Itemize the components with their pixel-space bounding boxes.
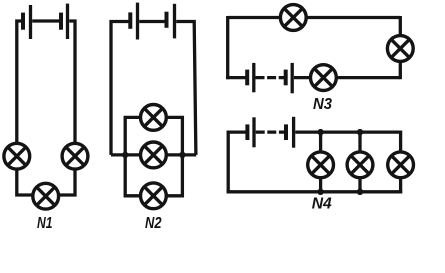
wire GB3 inter-cell dashed link: [256, 76, 285, 79]
battery GB2 cell1 long plate: [136, 3, 139, 40]
wire N3 bottom right segment: [294, 76, 400, 79]
lamp L2: [62, 143, 88, 169]
wire N4 lamp branch 1: [319, 132, 322, 192]
wire N3 top side: [228, 16, 401, 19]
battery GB3 cell1 short plate: [245, 70, 249, 86]
wire N1 lamp L1 to lamp L3: [17, 168, 34, 195]
wire N2 battery left lead: [111, 22, 130, 155]
battery GB3 cell2 short plate: [284, 70, 288, 86]
wire N2 top branch: [125, 117, 182, 154]
svg-text:N2: N2: [145, 215, 162, 232]
battery GB3 cell2 long plate: [291, 63, 294, 93]
lamp L6 (N2 bottom): [141, 183, 167, 209]
battery GB4 cell2 long plate: [292, 117, 295, 148]
battery GB4 cell1 short plate: [245, 124, 249, 140]
battery GB4 cell2 short plate: [284, 124, 288, 140]
battery GB2 cell2 short plate: [165, 12, 169, 28]
lamp L3: [33, 183, 59, 209]
junction dot N2 left: [122, 152, 128, 158]
wire N1 battery negative lead (left): [17, 21, 23, 144]
lamp L1: [4, 143, 30, 169]
lamp L9 (N3 bottom): [311, 65, 337, 91]
lamp L4 (N2 top): [141, 105, 167, 131]
wire N2 battery right lead: [176, 22, 196, 155]
lamp L7 (N3 top): [280, 5, 306, 31]
battery GB2 cell1 short plate: [128, 12, 132, 28]
wire N2 middle rail: [111, 153, 196, 156]
wire N1 lamp L2 to lamp L3: [58, 168, 75, 195]
svg-text:N3: N3: [313, 96, 332, 113]
junction dot N2 right: [179, 152, 185, 158]
battery GB1 cell2 long plate: [66, 4, 69, 39]
battery GB1 cell2 short plate: [59, 13, 63, 30]
wire GB1 inter-cell link: [32, 19, 59, 22]
junction dot N4 bottom-2: [357, 189, 363, 195]
wire N3 right side: [399, 16, 402, 79]
junction dot N4 top-1: [317, 129, 323, 135]
battery GB1 cell1 short plate: [21, 13, 25, 30]
wire GB4 inter-cell dashed link: [256, 130, 285, 133]
wire N1 battery positive lead (right): [69, 21, 75, 144]
wire N3 left side: [226, 16, 229, 79]
lamp L10 (N4 left): [308, 152, 334, 178]
lamp L11 (N4 middle): [347, 152, 373, 178]
lamp L12 (N4 right): [388, 152, 414, 178]
wire N4 top right segment: [295, 130, 400, 133]
wire N4 left side: [227, 131, 230, 194]
battery GB3 cell1 long plate: [252, 63, 255, 92]
wire N2 bottom branch: [125, 155, 182, 196]
lamp L8 (N3 right): [387, 36, 413, 62]
wire N4 top left segment: [227, 130, 246, 133]
wire N4 lamp branch 2: [358, 132, 361, 192]
wire N4 right side: [399, 131, 402, 194]
junction dot N4 top-2: [357, 129, 363, 135]
battery GB4 cell1 long plate: [252, 117, 255, 147]
svg-text:N1: N1: [37, 215, 53, 232]
battery GB2 cell2 long plate: [173, 4, 176, 39]
battery GB1 cell1 long plate: [29, 5, 32, 39]
wire GB2 inter-cell link: [139, 20, 165, 23]
lamp L5 (N2 middle): [141, 142, 167, 168]
svg-text:N4: N4: [312, 196, 332, 213]
wire N4 bottom side: [227, 190, 403, 193]
wire N3 bottom left segment: [226, 76, 246, 79]
junction dot N4 bottom-1: [317, 189, 323, 195]
